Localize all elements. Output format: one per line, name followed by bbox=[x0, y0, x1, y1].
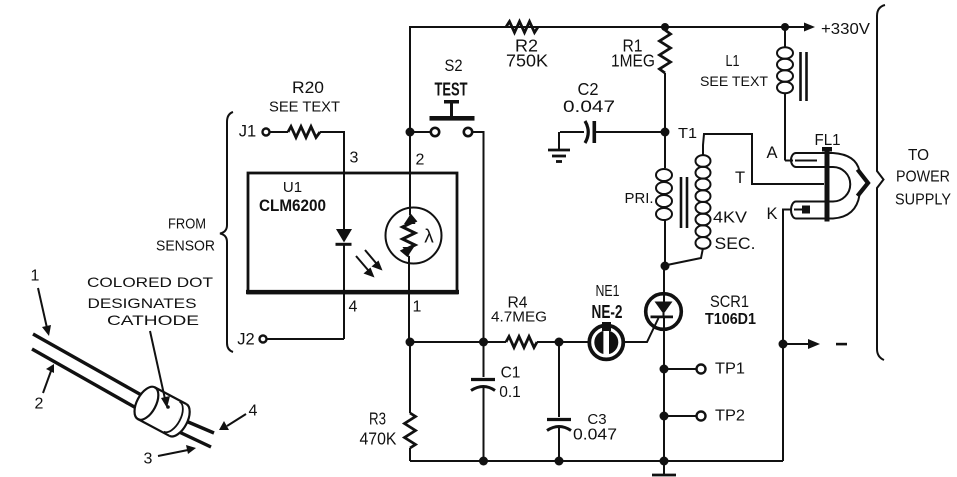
svg-text:T106D1: T106D1 bbox=[705, 311, 756, 328]
resistor R20 bbox=[269, 79, 340, 138]
svg-text:4: 4 bbox=[349, 299, 358, 316]
cathode electrode K bbox=[794, 209, 804, 211]
svg-text:NE-2: NE-2 bbox=[592, 302, 623, 322]
wire R4 to NE1 bbox=[537, 341, 590, 343]
svg-text:CLM6200: CLM6200 bbox=[259, 197, 326, 215]
ground C2 bbox=[548, 132, 570, 162]
svg-text:3: 3 bbox=[144, 451, 153, 468]
SCR1 bbox=[646, 266, 756, 461]
wire NE1 gate bbox=[624, 318, 659, 342]
test point TP1 bbox=[660, 361, 746, 378]
svg-text:2: 2 bbox=[416, 152, 425, 169]
svg-text:PRI.: PRI. bbox=[625, 191, 654, 207]
svg-text:0.047: 0.047 bbox=[573, 427, 617, 444]
svg-text:S2: S2 bbox=[445, 57, 463, 75]
svg-text:COLORED DOT: COLORED DOT bbox=[87, 274, 214, 290]
svg-text:FL1: FL1 bbox=[815, 132, 841, 149]
ground bbox=[652, 461, 676, 475]
node K junction bbox=[779, 340, 788, 349]
connector J2 bbox=[237, 331, 344, 349]
svg-text:470K: 470K bbox=[360, 429, 397, 449]
transformer T1 core bbox=[681, 177, 687, 228]
flash tube FL1 bbox=[735, 132, 868, 223]
sensor diode body bbox=[130, 383, 195, 440]
svg-text:1: 1 bbox=[31, 268, 40, 285]
wire K down bbox=[783, 210, 792, 462]
svg-text:T1: T1 bbox=[678, 125, 697, 142]
svg-text:T: T bbox=[735, 169, 745, 187]
svg-text:2: 2 bbox=[35, 396, 44, 413]
svg-text:R20: R20 bbox=[292, 79, 324, 97]
node C1 junction bbox=[479, 338, 488, 347]
svg-text:C2: C2 bbox=[578, 79, 599, 99]
svg-text:J2: J2 bbox=[237, 331, 254, 349]
brace FROM SENSOR bbox=[156, 112, 233, 352]
capacitor C2 bbox=[560, 79, 665, 143]
wire J1 to pin3 bbox=[320, 132, 344, 173]
svg-text:J1: J1 bbox=[239, 123, 256, 141]
svg-text:K: K bbox=[766, 205, 777, 223]
wire row 342 bbox=[410, 341, 506, 343]
anode electrode A bbox=[795, 160, 817, 162]
svg-text:NE1: NE1 bbox=[596, 283, 620, 300]
test point TP2 bbox=[660, 408, 746, 425]
svg-text:4: 4 bbox=[249, 403, 258, 420]
svg-text:L1: L1 bbox=[726, 53, 740, 70]
colored dot bbox=[166, 405, 170, 409]
svg-text:C1: C1 bbox=[501, 365, 521, 382]
resistor R4 bbox=[491, 295, 547, 348]
svg-text:TP2: TP2 bbox=[715, 408, 745, 425]
lead label 2 bbox=[35, 364, 54, 413]
node pin1 junction bbox=[406, 338, 415, 347]
svg-text:U1: U1 bbox=[283, 179, 302, 196]
svg-text:SCR1: SCR1 bbox=[710, 293, 749, 311]
transformer T1 secondary bbox=[667, 134, 824, 265]
lead label 4 bbox=[219, 403, 258, 431]
svg-text:+330V: +330V bbox=[821, 21, 870, 38]
node C3 bottom junction bbox=[555, 457, 564, 466]
svg-text:A: A bbox=[766, 144, 777, 162]
svg-text:λ: λ bbox=[424, 227, 434, 248]
svg-text:SUPPLY: SUPPLY bbox=[895, 192, 951, 209]
svg-text:1: 1 bbox=[413, 299, 422, 316]
svg-text:C3: C3 bbox=[587, 411, 606, 428]
inductor L1 bbox=[700, 27, 793, 161]
wire bottom rail bbox=[410, 460, 783, 462]
node C1 bottom junction bbox=[479, 457, 488, 466]
brace TO POWER SUPPLY bbox=[877, 5, 951, 360]
lamp NE1 bbox=[589, 283, 623, 359]
node C3 junction bbox=[555, 338, 564, 347]
wire top rail bbox=[410, 27, 785, 132]
capacitor C3 bbox=[547, 342, 617, 461]
op-amp U1 box bbox=[246, 173, 459, 293]
capacitor C1 bbox=[471, 342, 521, 461]
svg-text:0.1: 0.1 bbox=[499, 384, 521, 401]
transformer T1 primary bbox=[625, 132, 673, 266]
photocell inside U1 bbox=[386, 208, 442, 264]
svg-text:TEST: TEST bbox=[435, 79, 468, 100]
wire A from L1 bbox=[785, 160, 793, 162]
svg-text:DESIGNATES: DESIGNATES bbox=[88, 295, 197, 311]
label COLORED DOT bbox=[87, 274, 214, 408]
svg-text:TO: TO bbox=[908, 147, 929, 164]
svg-text:1MEG: 1MEG bbox=[611, 51, 655, 71]
node T1 top junction bbox=[661, 23, 669, 31]
node ground junction bbox=[660, 457, 669, 466]
svg-text:SEC.: SEC. bbox=[715, 235, 756, 253]
wire pin2 through cell bbox=[409, 132, 411, 215]
svg-text:0.047: 0.047 bbox=[563, 97, 615, 116]
svg-text:TP1: TP1 bbox=[715, 361, 745, 378]
resistor R3 bbox=[360, 342, 416, 461]
resistor R1 bbox=[611, 30, 671, 132]
node S2 left junction bbox=[406, 128, 415, 137]
svg-text:3: 3 bbox=[350, 150, 359, 167]
resistor R2 bbox=[506, 22, 548, 71]
lead label 3 bbox=[144, 445, 196, 468]
node T1 bbox=[661, 128, 670, 137]
inductor L1 core bbox=[801, 52, 807, 101]
svg-text:CATHODE: CATHODE bbox=[107, 312, 199, 328]
svg-text:SENSOR: SENSOR bbox=[156, 238, 215, 255]
LED inside U1 bbox=[336, 173, 353, 339]
lead label 1 bbox=[31, 268, 51, 337]
arrow +330V bbox=[785, 21, 870, 38]
sensor illustration leads bbox=[32, 334, 214, 447]
switch S2 bbox=[414, 57, 484, 342]
node SCR anode junction bbox=[661, 262, 670, 271]
node L1 top junction bbox=[781, 23, 789, 31]
light arrows bbox=[356, 250, 383, 278]
arrow minus output bbox=[783, 339, 847, 349]
svg-text:4.7MEG: 4.7MEG bbox=[491, 310, 547, 326]
svg-text:SEE TEXT: SEE TEXT bbox=[269, 99, 340, 116]
svg-text:750K: 750K bbox=[506, 51, 548, 71]
connector J1 bbox=[239, 123, 288, 141]
svg-text:POWER: POWER bbox=[896, 169, 950, 186]
svg-text:SEE TEXT: SEE TEXT bbox=[700, 74, 768, 89]
svg-text:4KV: 4KV bbox=[713, 210, 747, 227]
svg-text:FROM: FROM bbox=[168, 216, 206, 233]
svg-text:R3: R3 bbox=[369, 409, 386, 429]
